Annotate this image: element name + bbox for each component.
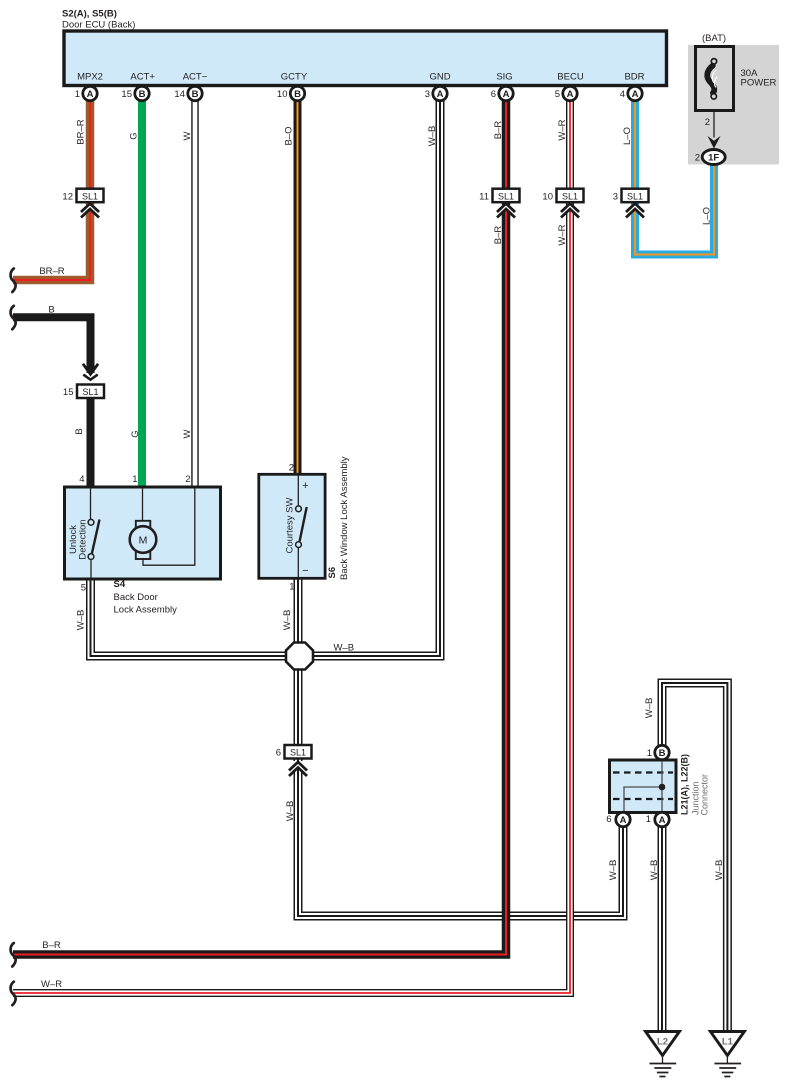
svg-text:BR–R: BR–R: [76, 119, 87, 144]
connector 1F to fuse: [695, 150, 725, 165]
svg-text:SL1: SL1: [290, 748, 306, 758]
svg-text:1: 1: [75, 89, 80, 100]
wire L-O from BDR pin 4 to fuse 1F: [635, 100, 714, 255]
ECU pin 1 A (MPX2): [75, 86, 97, 100]
svg-text:A: A: [87, 89, 94, 100]
wire B-R from SIG pin 6: [13, 100, 506, 955]
svg-text:W–B: W–B: [427, 126, 438, 147]
S4 unlock detection switch: [68, 488, 100, 579]
continuation squiggle W-R: [11, 982, 16, 1006]
splice 6 SL1 on W-B: [276, 745, 312, 776]
svg-text:GND: GND: [429, 72, 450, 83]
S4 label: [114, 579, 178, 616]
S4 motor M: [130, 488, 195, 565]
svg-text:(BAT): (BAT): [702, 33, 726, 44]
svg-text:W–B: W–B: [76, 610, 87, 631]
svg-text:W–B: W–B: [285, 801, 296, 822]
wire BR-R from MPX2 pin 1: [13, 100, 90, 280]
svg-text:W: W: [182, 131, 193, 140]
splice 15 SL1 on B wire: [63, 364, 104, 398]
svg-text:B–O: B–O: [284, 126, 295, 145]
svg-text:L1: L1: [722, 1037, 734, 1048]
svg-text:POWER: POWER: [741, 78, 777, 89]
fuse 30A POWER: [696, 47, 777, 111]
ECU pin 6 A (SIG): [491, 86, 513, 100]
svg-text:S4: S4: [114, 579, 126, 590]
svg-text:BECU: BECU: [557, 72, 584, 83]
svg-text:A: A: [567, 89, 574, 100]
svg-text:SL1: SL1: [82, 387, 98, 397]
S6 label: [327, 456, 350, 580]
svg-text:SL1: SL1: [498, 191, 514, 201]
ground L2: [646, 1032, 680, 1077]
svg-text:S6: S6: [327, 567, 338, 579]
svg-text:2: 2: [705, 117, 710, 128]
svg-text:B–R: B–R: [493, 226, 504, 245]
svg-text:−: −: [302, 565, 308, 577]
svg-text:W–B: W–B: [334, 643, 355, 654]
wire B-O from GCTY pin 10: [294, 100, 302, 476]
svg-text:3: 3: [613, 191, 618, 202]
svg-text:SL1: SL1: [562, 191, 578, 201]
svg-text:SL1: SL1: [627, 191, 643, 201]
svg-text:6: 6: [276, 748, 281, 759]
svg-text:Door ECU (Back): Door ECU (Back): [62, 20, 135, 31]
svg-text:ACT−: ACT−: [183, 72, 208, 83]
junction pin 6 A: [606, 812, 630, 826]
svg-text:14: 14: [174, 89, 185, 100]
wire W-B from junction connector pin B to L1 ground: [662, 683, 727, 1032]
svg-text:5: 5: [555, 89, 560, 100]
svg-text:W–R: W–R: [557, 224, 568, 245]
svg-text:B–R: B–R: [493, 121, 504, 140]
svg-text:1: 1: [646, 814, 651, 825]
svg-text:Connector: Connector: [700, 774, 710, 816]
svg-text:10: 10: [542, 191, 553, 202]
ECU pin 14 B (ACT-): [174, 86, 202, 100]
svg-text:L–O: L–O: [622, 127, 633, 145]
svg-text:B: B: [139, 89, 146, 100]
continuation squiggle BR-R: [11, 269, 16, 293]
ECU pin 15 B (ACT+): [121, 86, 149, 100]
svg-text:2: 2: [185, 474, 190, 485]
svg-text:B: B: [659, 748, 666, 759]
ground L1: [710, 1032, 744, 1077]
continuation squiggle B-R: [11, 943, 16, 967]
svg-text:B–R: B–R: [42, 940, 61, 951]
ECU pin 5 A (BECU): [555, 86, 577, 100]
svg-text:L21(A), L22(B): L21(A), L22(B): [680, 754, 690, 815]
svg-text:6: 6: [491, 89, 496, 100]
wire W-B from GND pin 3 to node: [300, 100, 440, 656]
svg-text:15: 15: [63, 387, 74, 398]
junction connector label: [680, 754, 710, 816]
svg-text:ACT+: ACT+: [130, 72, 155, 83]
svg-text:B: B: [74, 428, 85, 434]
ECU S2/S5 title: [62, 9, 135, 31]
svg-text:Detection: Detection: [78, 519, 89, 559]
svg-text:L2: L2: [657, 1037, 668, 1048]
fuse output lead with arrow: [705, 111, 721, 149]
S6 Back Window Lock Assembly box: [259, 463, 325, 593]
splice 12 SL1 on BR-R: [62, 189, 103, 218]
wire G from ACT+ pin 15: [138, 100, 146, 489]
wire W-B from S6 pin 1 through node to junction connector 6A: [298, 578, 623, 916]
svg-text:W–B: W–B: [282, 610, 293, 631]
svg-text:B: B: [48, 305, 54, 316]
svg-text:Lock Assembly: Lock Assembly: [114, 605, 178, 616]
svg-text:2: 2: [695, 152, 700, 163]
svg-text:GCTY: GCTY: [281, 72, 308, 83]
Door ECU (Back) box: [64, 31, 667, 86]
svg-text:Back Door: Back Door: [114, 592, 158, 603]
svg-text:12: 12: [62, 191, 73, 202]
svg-text:15: 15: [121, 89, 132, 100]
node octagon junction: [286, 643, 313, 670]
svg-text:6: 6: [606, 814, 611, 825]
svg-text:SL1: SL1: [82, 191, 98, 201]
svg-text:W: W: [182, 429, 193, 438]
svg-text:W–R: W–R: [41, 979, 62, 990]
svg-text:4: 4: [620, 89, 625, 100]
svg-text:W–B: W–B: [644, 698, 655, 719]
svg-text:1F: 1F: [708, 152, 719, 163]
wire W-R from BECU pin 5: [13, 100, 570, 993]
svg-text:10: 10: [277, 89, 288, 100]
svg-text:BR–R: BR–R: [39, 266, 64, 277]
(BAT) power block background: [688, 33, 779, 165]
ECU pin 10 B (GCTY): [277, 86, 305, 100]
svg-text:W–R: W–R: [557, 119, 568, 140]
junction connector L21/L22 box: [610, 760, 677, 813]
svg-text:B: B: [192, 89, 199, 100]
svg-text:5: 5: [81, 583, 86, 594]
svg-text:W–B: W–B: [649, 860, 660, 881]
ECU pin 3 A (GND): [425, 86, 447, 100]
wire W from ACT- pin 14: [191, 100, 199, 489]
splice 10 SL1 on W-R: [542, 189, 583, 218]
svg-text:BDR: BDR: [624, 72, 644, 83]
wire W-B from S4 pin 5 to node: [91, 578, 301, 656]
svg-text:11: 11: [479, 191, 489, 202]
svg-text:A: A: [503, 89, 510, 100]
svg-text:G: G: [129, 132, 140, 139]
svg-text:1: 1: [289, 582, 294, 593]
svg-text:3: 3: [425, 89, 430, 100]
splice 3 SL1 on L-O: [613, 189, 649, 218]
svg-text:W–B: W–B: [714, 860, 725, 881]
svg-text:A: A: [659, 815, 666, 826]
svg-text:SIG: SIG: [496, 72, 512, 83]
svg-text:M: M: [139, 534, 148, 546]
S6 courtesy switch: [284, 475, 308, 578]
svg-text:A: A: [437, 89, 444, 100]
svg-text:L–O: L–O: [702, 207, 713, 225]
svg-text:Courtesy SW: Courtesy SW: [284, 497, 295, 553]
svg-text:1: 1: [647, 748, 652, 759]
svg-text:B: B: [294, 89, 301, 100]
junction pin 1 A: [646, 812, 669, 826]
splice 11 SL1 on B-R: [479, 189, 519, 218]
svg-text:G: G: [130, 430, 141, 437]
svg-text:A: A: [632, 89, 639, 100]
svg-text:1: 1: [132, 474, 137, 485]
svg-text:4: 4: [79, 474, 84, 485]
ECU pin 4 A (BDR): [620, 86, 642, 100]
svg-text:W–B: W–B: [608, 860, 619, 881]
continuation squiggle B: [11, 306, 16, 330]
svg-text:2: 2: [289, 463, 294, 474]
junction pin 1 B: [647, 745, 669, 759]
wire W-B from junction connector pin 1A to L2 ground: [658, 821, 667, 1032]
svg-text:A: A: [620, 815, 627, 826]
S4 Back Door Lock Assembly box: [65, 474, 221, 594]
svg-text:S2(A), S5(B): S2(A), S5(B): [62, 9, 117, 20]
wire B from left continuation to S4 pin 4: [13, 317, 91, 373]
svg-text:MPX2: MPX2: [77, 72, 103, 83]
svg-text:Back Window Lock Assembly: Back Window Lock Assembly: [339, 456, 350, 580]
svg-text:+: +: [302, 480, 308, 492]
